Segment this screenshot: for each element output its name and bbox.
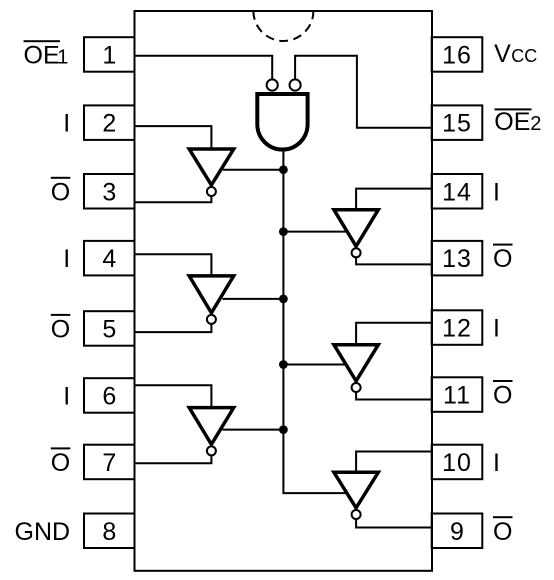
inverter U6 output bubble [352, 383, 361, 392]
label I (pin 14) [493, 178, 500, 206]
inverter U7 triangle [334, 472, 378, 508]
wire enable stub to U3 [223, 298, 284, 300]
svg-text:GND: GND [15, 518, 71, 546]
pin 2 box [84, 105, 135, 139]
wire pin4 to inverter U3 input [135, 254, 212, 276]
wire pin14 to inverter U5 input [356, 189, 432, 210]
inverter U2 triangle [189, 149, 234, 185]
inverter U7 output bubble [352, 510, 361, 519]
label O-bar (pin 9) [493, 516, 513, 546]
inverter U5 triangle [334, 210, 378, 247]
label OE1 (pin 1) [24, 40, 69, 69]
svg-text:12: 12 [442, 315, 472, 343]
junction dot U2 enable [279, 165, 288, 174]
pin 6 box [84, 378, 135, 413]
wire enable stub to U6 [283, 364, 347, 366]
wire inverter U5 output to pin13 [356, 258, 432, 265]
pin 4 box [84, 241, 135, 276]
junction dot U3 enable [279, 295, 288, 304]
svg-text:9: 9 [450, 518, 464, 546]
svg-text:1: 1 [102, 42, 116, 70]
inverter U2 output bubble [207, 187, 216, 196]
label I (pin 12) [493, 315, 500, 343]
label I (pin 6) [63, 383, 70, 411]
svg-text:V: V [494, 40, 511, 68]
svg-text:16: 16 [442, 42, 472, 70]
svg-text:1: 1 [57, 47, 68, 69]
label O-bar (pin 11) [493, 380, 513, 410]
svg-text:8: 8 [102, 518, 116, 546]
pin 7 box [84, 445, 135, 480]
pin 12 box [432, 310, 483, 345]
svg-text:I: I [493, 449, 500, 477]
svg-text:15: 15 [442, 110, 472, 138]
label I (pin 4) [63, 245, 70, 273]
svg-text:5: 5 [102, 316, 116, 344]
svg-text:2: 2 [102, 110, 116, 138]
pin 16 box [432, 37, 483, 71]
svg-text:7: 7 [102, 449, 116, 477]
wire inverter U3 output to pin5 [135, 324, 212, 332]
svg-text:11: 11 [443, 382, 471, 410]
wire enable stub to U5 [283, 231, 348, 233]
svg-text:I: I [63, 245, 70, 273]
junction dot U4 enable [279, 425, 288, 434]
pin 10 box [432, 445, 483, 480]
label O-bar (pin 13) [493, 244, 513, 274]
wire pin6 to inverter U4 input [135, 385, 212, 407]
junction dot U5 enable [279, 227, 288, 236]
gate U1 input bubble pin1 [267, 79, 278, 90]
wire enable net vertical from gate output [283, 150, 348, 493]
pin 1 box [84, 37, 135, 71]
wire inverter U4 output to pin7 [135, 456, 212, 464]
svg-text:I: I [63, 110, 70, 138]
pin 9 box [432, 514, 483, 549]
label O-bar (pin 7) [51, 447, 71, 477]
pin 15 box [432, 105, 483, 139]
label I (pin 2) [63, 110, 70, 138]
inverter U6 triangle [334, 345, 378, 381]
pin 8 box [84, 514, 135, 549]
svg-text:13: 13 [442, 245, 472, 273]
svg-text:14: 14 [442, 178, 472, 206]
wire enable stub to U4 [223, 429, 284, 431]
label I (pin 10) [493, 449, 500, 477]
pin 13 box [432, 241, 483, 276]
wire inverter U7 output to pin9 [356, 519, 432, 527]
inverter U3 triangle [189, 276, 234, 313]
pin 5 box [84, 311, 135, 346]
pin 11 box [432, 377, 483, 412]
svg-text:10: 10 [442, 449, 472, 477]
svg-text:I: I [493, 315, 500, 343]
label GND (pin 8) [15, 518, 71, 546]
wire pin12 to inverter U6 input [356, 323, 432, 345]
svg-text:O: O [51, 449, 70, 477]
gate U1 input bubble pin15 [290, 79, 301, 90]
svg-text:I: I [63, 383, 70, 411]
inverter U5 output bubble [352, 248, 361, 257]
label O-bar (pin 5) [51, 314, 71, 344]
package notch [253, 11, 313, 41]
wire pin2 to inverter U2 input [135, 126, 212, 149]
svg-text:O: O [51, 316, 70, 344]
label OE2 (pin 15) [494, 108, 541, 136]
label O-bar (pin 3) [51, 177, 71, 207]
svg-text:OE: OE [494, 108, 530, 136]
IC body [135, 11, 433, 571]
inverter U4 triangle [189, 408, 234, 445]
wire pin15 to gate right input [295, 56, 432, 128]
svg-text:2: 2 [530, 113, 541, 135]
svg-text:O: O [493, 382, 512, 410]
junction dot U6 enable [279, 360, 288, 369]
pin 14 box [432, 174, 483, 209]
wire enable stub to U2 [223, 169, 283, 171]
svg-text:4: 4 [102, 245, 116, 273]
wire pin1 to gate left input [135, 56, 273, 79]
inverter U3 output bubble [207, 315, 216, 324]
svg-text:O: O [493, 245, 512, 273]
inverter U4 output bubble [207, 446, 216, 455]
svg-text:3: 3 [102, 178, 116, 206]
svg-text:6: 6 [102, 383, 116, 411]
svg-text:O: O [493, 518, 512, 546]
svg-text:O: O [51, 178, 70, 206]
label VCC (pin 16) [494, 40, 537, 68]
svg-text:I: I [493, 178, 500, 206]
svg-text:OE: OE [24, 42, 60, 70]
wire inverter U6 output to pin11 [356, 392, 432, 399]
wire pin10 to inverter U7 input [356, 452, 432, 473]
nand-style enable gate U1 body [257, 94, 307, 150]
svg-text:CC: CC [511, 46, 537, 66]
pin 3 box [84, 174, 135, 209]
wire inverter U2 output to pin3 [135, 196, 212, 202]
